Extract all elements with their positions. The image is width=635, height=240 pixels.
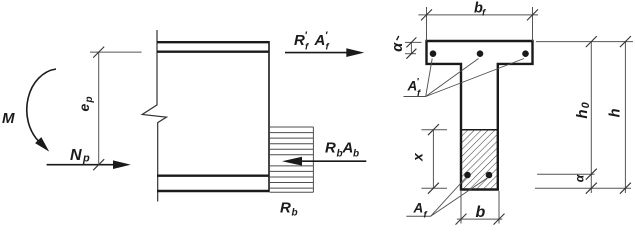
svg-text:α: α xyxy=(390,42,406,52)
svg-text:b: b xyxy=(476,204,486,221)
svg-text:M: M xyxy=(2,110,15,127)
svg-text:p: p xyxy=(82,153,90,165)
svg-text:R: R xyxy=(325,139,336,156)
svg-text:x: x xyxy=(410,152,426,162)
svg-text:N: N xyxy=(70,147,82,164)
svg-text:b: b xyxy=(353,148,359,159)
svg-text:A: A xyxy=(413,201,424,216)
svg-text:e: e xyxy=(76,104,92,112)
svg-text:A: A xyxy=(342,139,354,156)
svg-text:b: b xyxy=(292,208,298,219)
svg-text:p: p xyxy=(84,96,95,103)
svg-text:h: h xyxy=(574,110,591,119)
svg-text:0: 0 xyxy=(580,101,592,108)
svg-text:R: R xyxy=(280,200,291,217)
svg-text:h: h xyxy=(608,108,624,117)
svg-text:R: R xyxy=(294,32,305,49)
svg-text:A: A xyxy=(314,32,326,49)
svg-text:α: α xyxy=(573,174,587,182)
